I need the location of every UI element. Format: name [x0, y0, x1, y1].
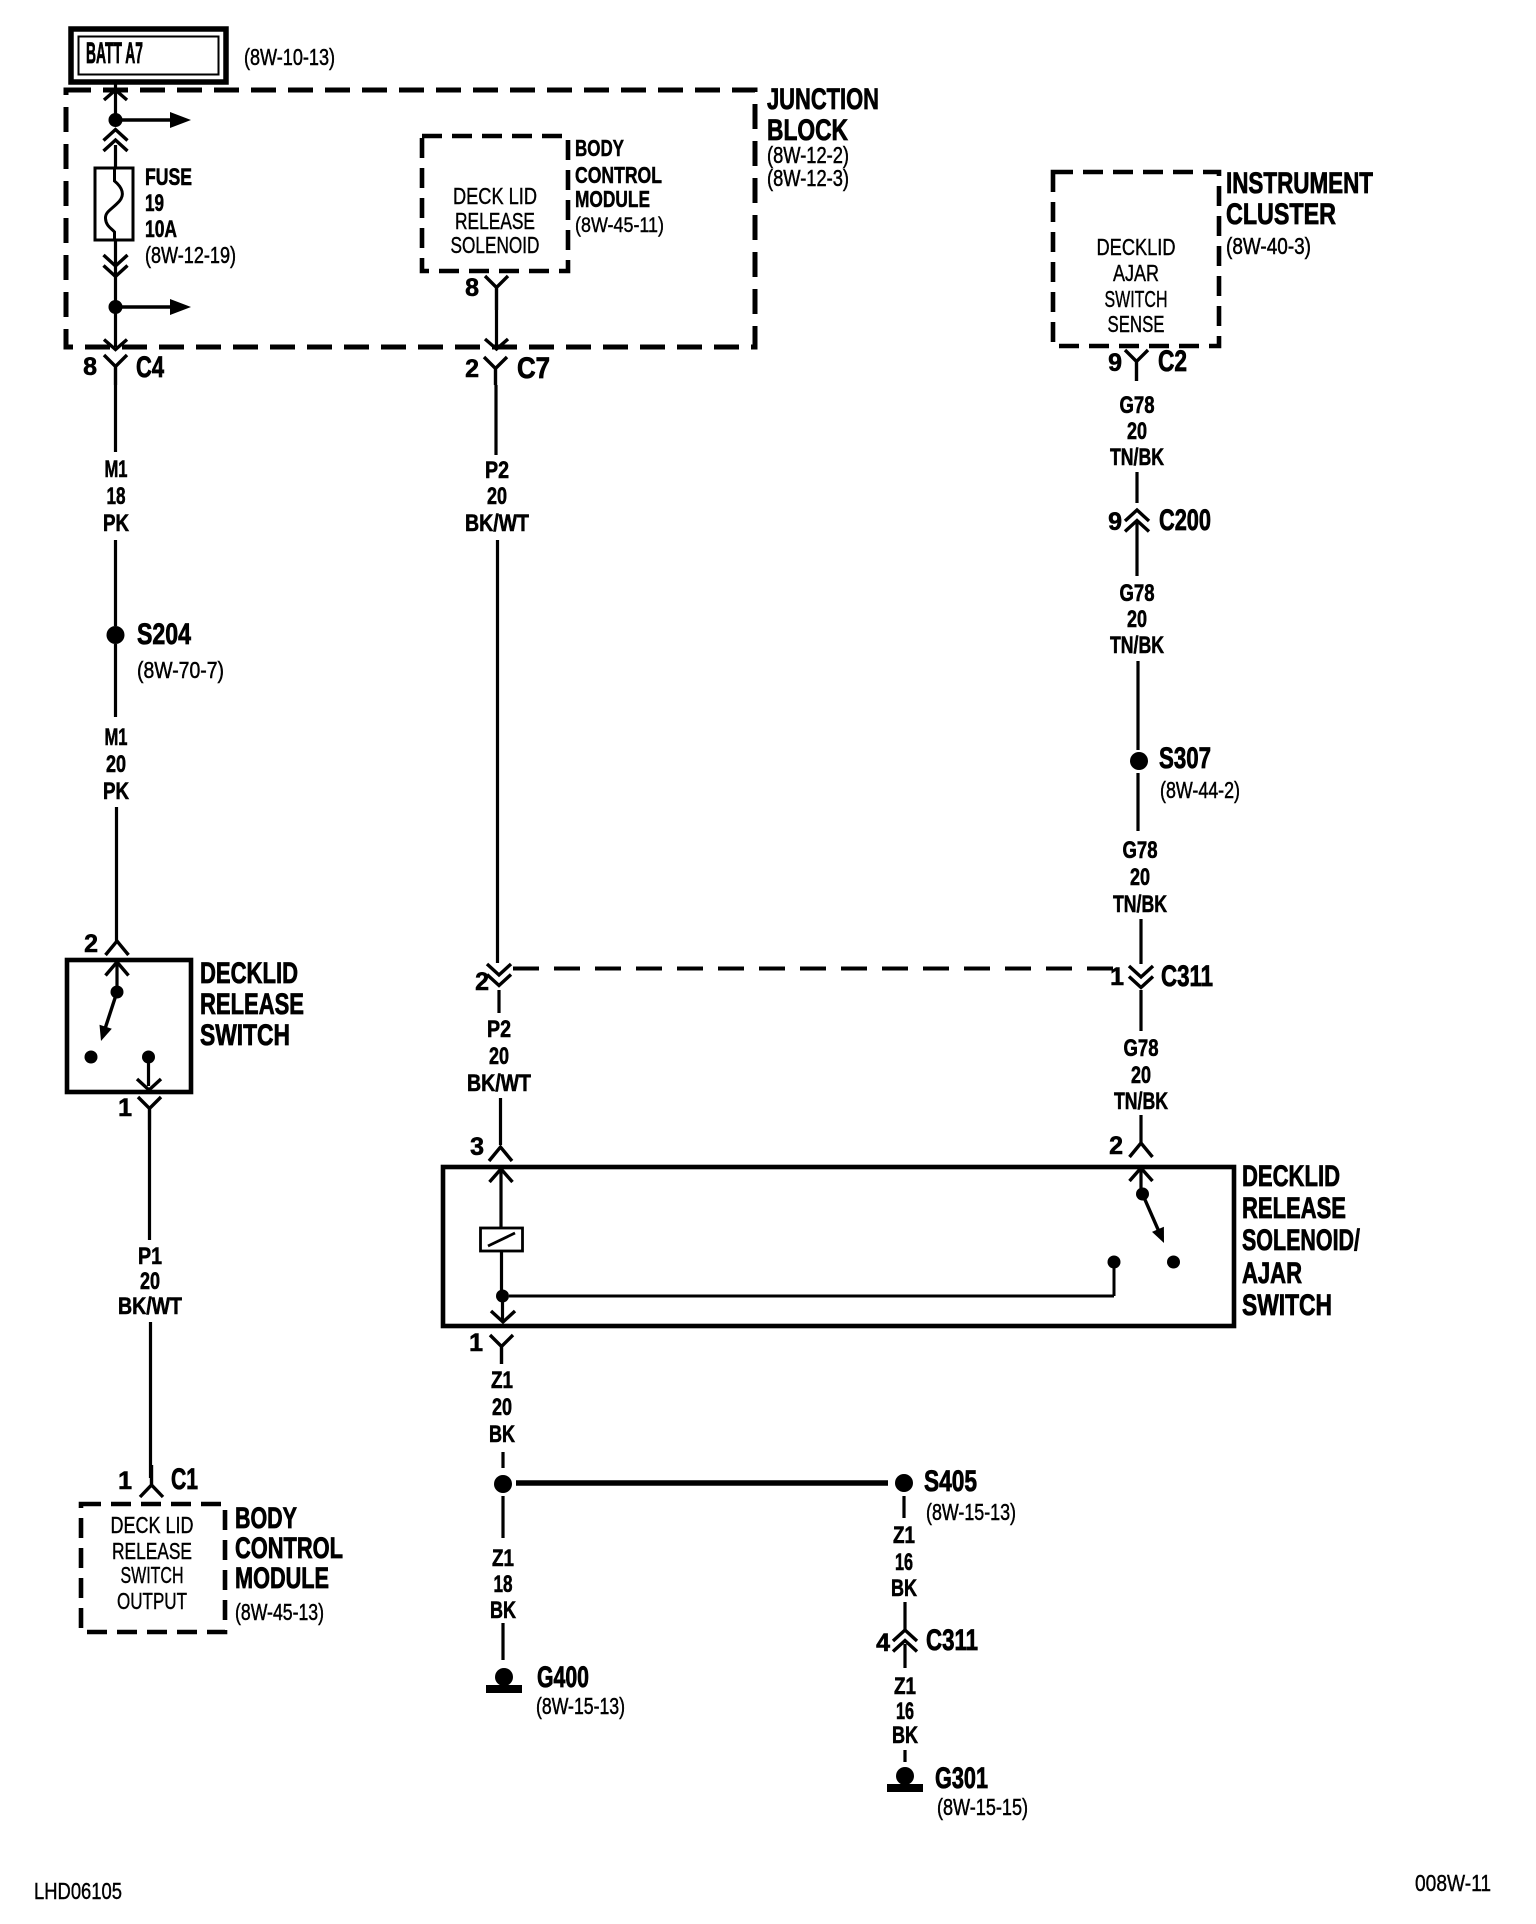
connector C200 double chevron: [1125, 510, 1149, 521]
svg-text:(8W-70-7): (8W-70-7): [137, 657, 224, 683]
pin 3 male connector half: [489, 1147, 512, 1161]
svg-text:8: 8: [465, 274, 479, 302]
svg-text:C200: C200: [1159, 504, 1211, 537]
wire S307 to label G78 20 TN/BK: [1136, 773, 1139, 831]
svg-text:PK: PK: [103, 510, 130, 537]
ground G301 symbol: [896, 1767, 914, 1785]
svg-text:SWITCH: SWITCH: [1105, 286, 1168, 312]
svg-text:S405: S405: [924, 1465, 977, 1498]
pin 2 arrow inside switch box: [106, 962, 129, 976]
svg-text:S204: S204: [137, 618, 191, 651]
svg-text:SWITCH: SWITCH: [1242, 1289, 1332, 1322]
node junction dot below BATT: [109, 113, 123, 127]
svg-text:DECKLID: DECKLID: [1242, 1160, 1340, 1193]
wire contact to box bottom: [147, 1057, 150, 1086]
connector C311 lower double chevron: [893, 1630, 917, 1641]
wire C4 to label M1 18 PK: [114, 385, 117, 452]
svg-text:20: 20: [140, 1268, 160, 1295]
svg-text:SWITCH: SWITCH: [121, 1562, 184, 1588]
svg-text:DECK LID: DECK LID: [111, 1512, 194, 1538]
svg-text:9: 9: [1108, 508, 1122, 536]
decklid release solenoid/ajar switch box: [443, 1167, 1234, 1326]
wire fuse to lower junction dot: [114, 240, 117, 307]
svg-text:G78: G78: [1123, 837, 1158, 864]
wire switch to label P1 20 BK/WT: [148, 1130, 151, 1240]
node splice dot to S405: [494, 1475, 512, 1493]
svg-text:G301: G301: [935, 1762, 988, 1795]
switch lower-left contact dot: [85, 1051, 98, 1064]
pin 1 connector below switch: [138, 1097, 161, 1130]
switch blade with arrow: [103, 992, 117, 1035]
svg-text:SWITCH: SWITCH: [200, 1019, 290, 1052]
svg-text:FUSE: FUSE: [145, 164, 192, 191]
pin 1 connector below box: [490, 1335, 513, 1364]
svg-text:INSTRUMENT: INSTRUMENT: [1226, 167, 1373, 200]
svg-text:CONTROL: CONTROL: [235, 1532, 343, 1565]
svg-text:C7: C7: [517, 352, 550, 385]
node internal junction dot: [496, 1290, 509, 1303]
svg-text:TN/BK: TN/BK: [1114, 1088, 1168, 1115]
wire to junction block bottom edge: [114, 307, 117, 347]
pin 8 connector below solenoid box: [485, 276, 508, 310]
svg-text:M1: M1: [105, 724, 128, 751]
ground G400 symbol: [495, 1668, 513, 1686]
svg-text:2: 2: [475, 968, 489, 996]
connector double chevron above fuse: [104, 130, 128, 141]
svg-text:19: 19: [145, 190, 164, 217]
switch output contact dot: [142, 1051, 155, 1064]
svg-text:BK: BK: [490, 1597, 516, 1624]
svg-text:P1: P1: [138, 1243, 162, 1270]
svg-text:SENSE: SENSE: [1108, 311, 1165, 337]
deck lid release solenoid dashed box: [422, 136, 568, 271]
ajar switch feed contact dot: [1108, 1256, 1121, 1269]
wire label to C311 pin 4: [903, 1602, 906, 1630]
svg-text:20: 20: [1131, 1062, 1151, 1089]
svg-text:16: 16: [895, 1549, 913, 1576]
dashed wire C311 to instrument cluster branch: [513, 967, 1127, 971]
wire C200 to label G78 20 TN/BK: [1135, 523, 1138, 576]
svg-text:PK: PK: [103, 778, 130, 805]
svg-text:TN/BK: TN/BK: [1113, 891, 1167, 918]
svg-text:RELEASE: RELEASE: [200, 988, 304, 1021]
svg-text:AJAR: AJAR: [1242, 1257, 1302, 1290]
svg-text:BK/WT: BK/WT: [465, 510, 529, 537]
svg-text:MODULE: MODULE: [235, 1562, 329, 1595]
svg-text:CLUSTER: CLUSTER: [1226, 198, 1336, 231]
wire label to ajar switch pin 2: [1139, 1115, 1142, 1145]
wire label to ground G400: [501, 1623, 504, 1660]
svg-text:SOLENOID/: SOLENOID/: [1242, 1224, 1360, 1257]
svg-text:(8W-40-3): (8W-40-3): [1226, 233, 1311, 259]
wire C311 to label Z1 16 BK: [903, 1644, 906, 1668]
wire label to decklid release switch pin 2: [115, 807, 118, 941]
svg-text:SOLENOID: SOLENOID: [451, 232, 540, 258]
svg-text:(8W-12-19): (8W-12-19): [145, 242, 236, 268]
svg-text:P2: P2: [487, 1016, 511, 1043]
wire S204 to label M1 20 PK: [114, 644, 117, 717]
svg-text:(8W-10-13): (8W-10-13): [244, 44, 335, 70]
arrow down at junction block bottom edge (C7): [485, 339, 508, 349]
svg-text:2: 2: [1109, 1132, 1123, 1160]
svg-text:G78: G78: [1120, 580, 1155, 607]
wire solenoid to internal node: [500, 1251, 503, 1290]
svg-text:CONTROL: CONTROL: [575, 162, 662, 188]
svg-text:16: 16: [896, 1698, 914, 1725]
svg-text:4: 4: [876, 1629, 890, 1657]
svg-text:20: 20: [487, 483, 507, 510]
splice S307 dot: [1130, 752, 1148, 770]
svg-text:(8W-45-11): (8W-45-11): [575, 214, 664, 237]
splice S405 dot: [895, 1474, 913, 1492]
svg-text:18: 18: [107, 483, 126, 510]
feed arrow to right (top): [116, 118, 171, 121]
svg-text:1: 1: [469, 1329, 483, 1357]
wire from BATT A7 into junction block: [114, 82, 117, 120]
instrument cluster dashed box: [1053, 172, 1219, 346]
svg-text:Z1: Z1: [491, 1367, 513, 1394]
wire label to splice node: [501, 1452, 504, 1468]
svg-text:8: 8: [83, 353, 97, 381]
splice S204 dot: [107, 626, 125, 644]
svg-text:S307: S307: [1159, 742, 1211, 775]
svg-text:M1: M1: [105, 456, 128, 483]
svg-text:JUNCTION: JUNCTION: [767, 83, 879, 116]
svg-text:Z1: Z1: [893, 1522, 915, 1549]
pin 2 arrow inside box: [1130, 1168, 1153, 1181]
svg-text:C311: C311: [926, 1624, 978, 1657]
svg-text:1: 1: [1110, 963, 1124, 991]
svg-text:DECKLID: DECKLID: [200, 957, 298, 990]
wire S405 down: [902, 1496, 905, 1518]
wire label to connector C1: [149, 1322, 152, 1478]
svg-text:008W-11: 008W-11: [1415, 1870, 1491, 1896]
wire to label P2 20 BK/WT lower: [497, 990, 500, 1013]
feed arrow to right (bottom): [116, 305, 171, 308]
svg-text:Z1: Z1: [894, 1673, 916, 1700]
svg-text:C2: C2: [1158, 345, 1187, 378]
connector C4 symbol: [104, 355, 127, 385]
svg-text:3: 3: [470, 1133, 484, 1161]
svg-text:10A: 10A: [145, 216, 177, 243]
svg-text:BK: BK: [891, 1575, 917, 1602]
svg-text:AJAR: AJAR: [1113, 260, 1159, 286]
wire splice to S405: [516, 1480, 888, 1486]
battery feed box BATT A7: [71, 29, 226, 82]
svg-text:BK/WT: BK/WT: [118, 1293, 182, 1320]
ajar switch lower contact dot: [1167, 1256, 1180, 1269]
svg-text:20: 20: [1127, 606, 1147, 633]
svg-text:BK: BK: [489, 1421, 515, 1448]
svg-text:(8W-44-2): (8W-44-2): [1160, 777, 1240, 803]
svg-text:G78: G78: [1120, 392, 1155, 419]
svg-text:BK: BK: [892, 1722, 918, 1749]
ajar switch common dot: [1136, 1188, 1149, 1201]
svg-text:BODY: BODY: [575, 135, 624, 161]
svg-text:TN/BK: TN/BK: [1110, 632, 1164, 659]
svg-text:20: 20: [1127, 418, 1147, 445]
svg-text:MODULE: MODULE: [575, 186, 650, 212]
wire chevrons to fuse: [114, 145, 117, 168]
solenoid coil symbol: [481, 1228, 523, 1251]
svg-text:(8W-45-13): (8W-45-13): [235, 1599, 324, 1625]
internal wire to ajar switch: [509, 1295, 1114, 1298]
svg-text:C1: C1: [171, 1463, 198, 1496]
decklid release switch box: [67, 960, 191, 1092]
svg-text:OUTPUT: OUTPUT: [117, 1588, 187, 1614]
svg-text:BATT A7: BATT A7: [86, 37, 143, 70]
junction block dashed outline: [66, 90, 755, 347]
svg-text:TN/BK: TN/BK: [1110, 444, 1164, 471]
pin 2 male connector half (ajar): [1130, 1143, 1153, 1157]
svg-text:G78: G78: [1124, 1035, 1159, 1062]
svg-text:9: 9: [1108, 349, 1122, 377]
svg-text:G400: G400: [537, 1661, 589, 1694]
switch common contact dot: [111, 986, 124, 999]
svg-text:20: 20: [106, 751, 126, 778]
arrow down at junction block bottom edge: [104, 340, 127, 350]
wire below left splice: [501, 1496, 504, 1538]
wire label to solenoid box pin 3: [499, 1098, 502, 1145]
svg-text:RELEASE: RELEASE: [455, 208, 535, 234]
wire label to splice S307: [1136, 661, 1139, 750]
svg-text:2: 2: [84, 930, 98, 958]
svg-text:LHD06105: LHD06105: [34, 1878, 122, 1904]
connector C311 left half double chevron: [487, 964, 511, 975]
pin 2 male connector half: [106, 941, 129, 955]
fuse FUSE 19 10A body: [95, 168, 133, 240]
svg-text:(8W-15-13): (8W-15-13): [926, 1499, 1016, 1525]
svg-text:C311: C311: [1161, 960, 1213, 993]
wire label to connector C311 pin 1: [1139, 919, 1142, 964]
svg-text:BODY: BODY: [235, 1502, 297, 1535]
long wire to connector C311 pin 2: [496, 540, 499, 963]
svg-text:BK/WT: BK/WT: [467, 1070, 531, 1097]
arrow up at junction block top edge: [104, 90, 127, 100]
wire label to splice S204: [114, 540, 117, 626]
svg-text:RELEASE: RELEASE: [1242, 1192, 1346, 1225]
svg-text:1: 1: [118, 1467, 132, 1495]
connector C1 symbol: [140, 1465, 163, 1497]
connector double chevron below fuse: [104, 255, 128, 266]
connector C311 right half double chevron: [1129, 966, 1153, 977]
arrow down to box bottom at pin 1: [491, 1311, 515, 1322]
svg-text:2: 2: [465, 355, 479, 383]
svg-text:DECKLID: DECKLID: [1097, 234, 1176, 260]
wire C311 to label G78 20 TN/BK: [1139, 990, 1142, 1031]
svg-text:C4: C4: [136, 351, 164, 384]
svg-text:1: 1: [118, 1094, 132, 1122]
wire pin 8 to junction block edge: [495, 310, 498, 347]
wire C7 to label P2 20 BK/WT: [494, 385, 497, 455]
arrow down at switch box bottom: [137, 1079, 161, 1090]
svg-text:P2: P2: [485, 457, 509, 484]
node junction dot above C4: [109, 300, 123, 314]
svg-text:20: 20: [492, 1394, 512, 1421]
svg-text:(8W-15-15): (8W-15-15): [937, 1794, 1028, 1820]
svg-text:DECK LID: DECK LID: [453, 183, 537, 209]
wire label to ground G301: [903, 1750, 906, 1762]
wire label to C200: [1135, 472, 1138, 503]
svg-text:RELEASE: RELEASE: [112, 1538, 192, 1564]
svg-text:(8W-15-13): (8W-15-13): [536, 1693, 625, 1719]
pin 3 arrow inside box: [490, 1169, 513, 1182]
connector C2 symbol: [1125, 350, 1148, 381]
svg-text:20: 20: [1130, 864, 1150, 891]
svg-text:(8W-12-3): (8W-12-3): [767, 165, 849, 191]
svg-text:Z1: Z1: [492, 1545, 514, 1572]
ajar switch blade with arrow: [1143, 1194, 1162, 1238]
svg-text:20: 20: [489, 1043, 509, 1070]
body control module output dashed box: [81, 1504, 225, 1632]
svg-text:18: 18: [494, 1571, 513, 1598]
connector C7 symbol: [484, 357, 507, 385]
